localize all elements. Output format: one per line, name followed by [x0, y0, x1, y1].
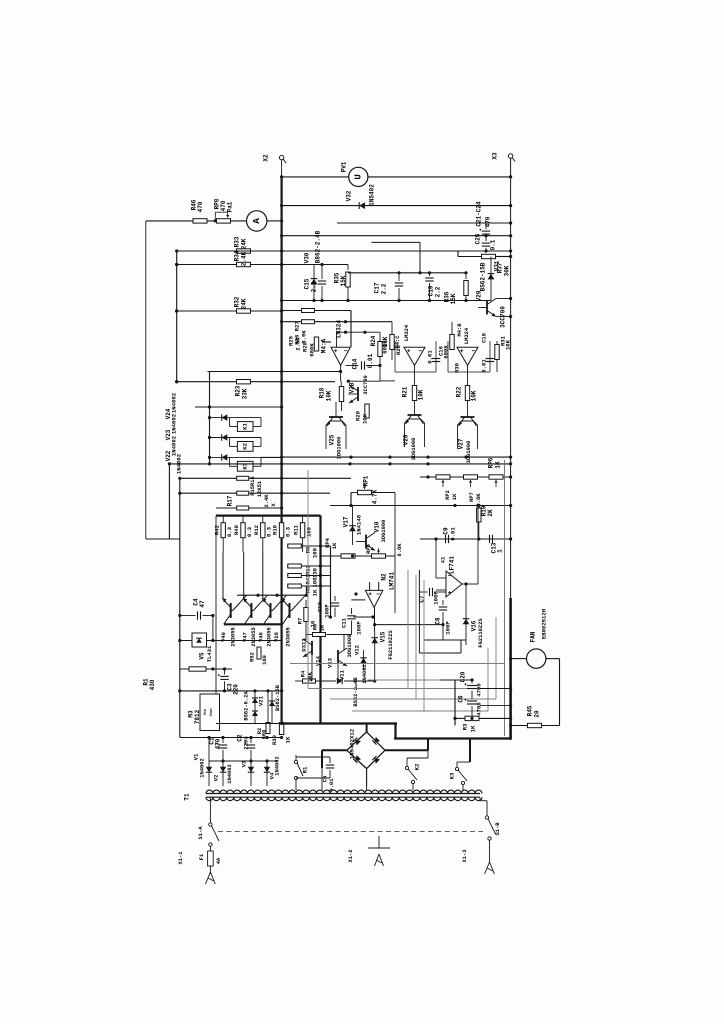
svg-text:R25: R25	[288, 335, 295, 346]
svg-text:2.4K: 2.4K	[264, 494, 270, 508]
junction	[280, 175, 512, 178]
resistor R1	[143, 667, 207, 691]
transistor V26	[403, 401, 425, 460]
wire	[394, 493, 396, 614]
junction	[509, 297, 512, 318]
svg-text:S1-B: S1-B	[495, 822, 501, 836]
potentiometer RP8	[214, 198, 234, 223]
junction	[280, 506, 283, 509]
wire	[215, 516, 217, 724]
wire	[455, 717, 465, 719]
svg-text:R42: R42	[213, 524, 220, 535]
capacitor C4	[178, 598, 214, 620]
svg-text:R17: R17	[227, 495, 234, 506]
wire	[350, 311, 352, 348]
diode V2	[213, 761, 234, 786]
junction	[349, 504, 512, 507]
relay contact K2	[405, 758, 420, 786]
junction	[339, 364, 382, 383]
svg-text:3DG1000: 3DG1000	[381, 520, 387, 543]
wire feedback	[352, 648, 488, 711]
wire base rail	[237, 594, 306, 596]
svg-text:4.7K: 4.7K	[372, 489, 379, 504]
wire	[371, 242, 420, 272]
svg-text:V25: V25	[329, 434, 336, 445]
svg-text:X1-1: X1-1	[178, 852, 184, 865]
svg-text:R30: R30	[454, 362, 461, 373]
wire	[180, 668, 232, 670]
wire	[511, 658, 527, 660]
wire	[330, 546, 332, 617]
wire	[282, 176, 349, 178]
resistor R19	[477, 505, 494, 539]
wire	[559, 659, 561, 726]
resistor R52	[250, 647, 269, 665]
svg-text:1N4002: 1N4002	[227, 764, 233, 783]
junction	[280, 299, 468, 302]
potentiometer RP7	[464, 475, 483, 507]
wire	[458, 256, 481, 258]
wire	[209, 760, 277, 762]
svg-text:0.3: 0.3	[226, 526, 233, 537]
svg-text:V11: V11	[339, 669, 346, 680]
resistor R23	[235, 380, 251, 400]
svg-text:15K: 15K	[340, 275, 347, 286]
resistor R27	[294, 320, 315, 345]
resistor R10	[272, 516, 292, 553]
svg-text:3CC700: 3CC700	[363, 375, 369, 394]
wire thick	[469, 739, 471, 763]
wire	[180, 477, 351, 479]
junction	[320, 263, 323, 266]
svg-text:470: 470	[215, 738, 222, 749]
potentiometer RP2	[436, 475, 458, 500]
svg-text:C19: C19	[428, 285, 435, 296]
svg-text:V1: V1	[193, 753, 200, 760]
diode V4	[264, 756, 281, 786]
svg-text:R34: R34	[234, 250, 241, 261]
resistor R15	[237, 476, 249, 480]
wire	[340, 365, 342, 381]
svg-text:K1: K1	[242, 423, 249, 430]
wire left drop	[145, 221, 147, 539]
svg-text:0.1: 0.1	[490, 239, 497, 250]
svg-text:S1-A: S1-A	[198, 826, 204, 840]
junction	[214, 219, 284, 222]
svg-text:R33: R33	[234, 236, 241, 247]
junction	[175, 249, 178, 383]
wire	[177, 310, 282, 312]
svg-text:2.2: 2.2	[435, 286, 442, 297]
svg-text:470: 470	[485, 216, 492, 227]
resistor R11	[293, 516, 313, 553]
svg-text:R12: R12	[253, 524, 260, 535]
resistor R37	[482, 254, 511, 276]
wire	[281, 160, 283, 177]
svg-text:33K: 33K	[242, 388, 249, 399]
svg-text:12K51: 12K51	[257, 481, 263, 497]
svg-text:2.2: 2.2	[311, 281, 318, 292]
svg-text:R6: R6	[313, 624, 319, 630]
svg-text:BS62-15B: BS62-15B	[275, 684, 281, 711]
resistor R40	[233, 516, 253, 553]
svg-text:V17: V17	[343, 516, 350, 527]
capacitor C7	[419, 588, 447, 605]
svg-text:600K: 600K	[382, 340, 389, 354]
resistor R2	[257, 691, 270, 739]
resistor R16	[237, 476, 263, 497]
wire	[282, 235, 511, 237]
svg-text:R1: R1	[302, 766, 309, 773]
capacitor C13	[490, 535, 504, 554]
wire	[320, 555, 395, 557]
capacitor C8	[435, 600, 452, 635]
svg-text:C9: C9	[443, 527, 450, 535]
meter PV1	[341, 161, 368, 186]
junction	[168, 462, 512, 465]
svg-text:1K: 1K	[332, 542, 338, 549]
svg-text:V13: V13	[327, 657, 334, 668]
svg-text:T1: T1	[184, 793, 191, 801]
junction	[351, 554, 354, 557]
svg-text:2N3055: 2N3055	[286, 627, 292, 646]
capacitor C15	[304, 265, 327, 301]
wire left rail2	[179, 478, 181, 539]
svg-text:RP1: RP1	[363, 475, 370, 486]
wire	[330, 505, 511, 507]
svg-text:10K: 10K	[326, 390, 333, 401]
svg-text:V26: V26	[403, 434, 410, 445]
svg-text:X3: X3	[492, 152, 499, 160]
wire	[209, 797, 211, 801]
junction	[319, 574, 322, 577]
svg-text:1K: 1K	[470, 725, 477, 732]
resistor R41	[287, 574, 331, 588]
transformer T1 core	[206, 794, 480, 798]
op-amp M4:B	[457, 323, 478, 366]
svg-text:3CC700: 3CC700	[500, 306, 507, 328]
svg-text:X1-2: X1-2	[348, 850, 354, 863]
wire	[436, 539, 446, 590]
wire frame	[504, 460, 506, 736]
svg-text:3.9K: 3.9K	[301, 330, 308, 344]
junction	[207, 370, 283, 739]
svg-text:100P: 100P	[445, 621, 452, 635]
svg-text:R21: R21	[402, 386, 409, 397]
junction	[208, 405, 283, 408]
svg-text:4700: 4700	[476, 702, 483, 716]
svg-text:R7: R7	[297, 618, 304, 625]
svg-text:2.4K: 2.4K	[241, 251, 248, 266]
svg-text:C20: C20	[460, 671, 467, 682]
svg-text:K2: K2	[242, 442, 249, 449]
svg-text:1K: 1K	[495, 461, 502, 469]
svg-text:4700: 4700	[476, 683, 483, 697]
junction	[221, 759, 268, 762]
svg-text:V3: V3	[241, 760, 248, 767]
resistor R39	[271, 723, 292, 746]
capacitor C17	[374, 273, 404, 301]
svg-text:LF741: LF741	[449, 556, 456, 574]
wire	[169, 463, 510, 465]
svg-text:N2: N2	[381, 573, 388, 581]
svg-text:C5: C5	[322, 775, 329, 782]
resistor R36	[444, 273, 469, 305]
wire thick	[322, 749, 347, 751]
junction	[178, 689, 283, 692]
svg-text:1N4002: 1N4002	[275, 756, 281, 775]
svg-text:2N3055: 2N3055	[231, 627, 237, 646]
relay coil K2	[237, 442, 253, 452]
svg-text:100: 100	[306, 526, 313, 537]
diode V3	[241, 760, 255, 786]
wire feedback	[308, 470, 505, 689]
resistor R12	[253, 516, 273, 553]
svg-text:FAN: FAN	[530, 631, 537, 642]
wire	[440, 679, 472, 681]
transformer T1 primary winding	[206, 797, 482, 800]
resistor R31	[495, 335, 512, 372]
svg-text:FG2110Z2S: FG2110Z2S	[478, 618, 484, 648]
svg-text:220: 220	[233, 684, 240, 695]
svg-text:R52: R52	[250, 652, 256, 662]
svg-text:1N4002: 1N4002	[171, 392, 178, 413]
svg-text:15K: 15K	[450, 293, 457, 304]
junction	[344, 331, 367, 334]
junction	[208, 416, 211, 419]
svg-text:V14: V14	[315, 655, 322, 666]
capacitor C2	[237, 734, 256, 761]
svg-text:24K: 24K	[241, 238, 248, 249]
svg-text:R15R16: R15R16	[250, 476, 256, 495]
wire	[462, 786, 464, 790]
junction	[211, 667, 226, 670]
resistor R29	[382, 322, 403, 360]
wire	[366, 786, 368, 790]
terminal X1-1	[178, 852, 215, 884]
svg-text:C15: C15	[304, 278, 311, 289]
svg-text:V15: V15	[380, 631, 387, 642]
wire thick	[321, 750, 323, 768]
wire	[212, 616, 214, 641]
wire	[348, 380, 395, 382]
junction	[509, 255, 512, 258]
svg-text:100P: 100P	[324, 604, 331, 618]
diode V22	[210, 454, 262, 466]
relay coil K3	[237, 461, 253, 471]
svg-text:C8: C8	[435, 617, 442, 625]
bridge rectifier	[347, 728, 385, 768]
wire feedback	[290, 570, 505, 711]
svg-text:10K: 10K	[471, 390, 478, 401]
op-amp N2	[351, 572, 395, 608]
resistor R6	[306, 624, 352, 650]
wire right rail thick	[509, 598, 512, 740]
wire	[282, 250, 511, 252]
junction	[280, 234, 512, 237]
transistor V25	[326, 402, 346, 459]
wire	[511, 725, 528, 727]
svg-text:V12: V12	[354, 644, 361, 655]
svg-text:1K: 1K	[312, 589, 319, 596]
transistor V40	[221, 552, 247, 647]
diode V24	[210, 414, 262, 426]
resistor R26	[302, 309, 315, 313]
transistor V47	[243, 552, 268, 647]
wire	[179, 539, 181, 738]
resistor R4	[300, 670, 316, 683]
wire	[146, 220, 247, 222]
dashed link	[218, 831, 483, 833]
wire	[337, 222, 511, 224]
node X3	[492, 152, 516, 162]
junction	[175, 263, 283, 266]
wire	[180, 492, 330, 494]
transistor V2B	[348, 375, 369, 403]
capacitor C19	[425, 273, 441, 301]
resistor RP4	[325, 537, 355, 558]
svg-text:47: 47	[199, 600, 206, 608]
switch S1-A	[198, 801, 219, 847]
wire	[177, 381, 335, 383]
svg-text:1N5402: 1N5402	[369, 184, 376, 206]
svg-text:3DG1000: 3DG1000	[466, 441, 472, 464]
node X2	[263, 154, 287, 163]
wire	[267, 220, 282, 222]
junction	[509, 687, 512, 707]
svg-text:1: 1	[497, 549, 504, 553]
junction	[256, 594, 308, 597]
svg-text:LM324: LM324	[464, 327, 470, 344]
junction	[476, 504, 479, 507]
svg-text:0.3: 0.3	[285, 526, 292, 537]
svg-text:R11: R11	[293, 524, 300, 535]
op-amp N1	[440, 556, 463, 597]
svg-text:100: 100	[262, 655, 268, 665]
wire relay rail	[209, 372, 211, 464]
wire	[282, 321, 392, 323]
wire	[496, 256, 511, 258]
svg-text:R3: R3	[462, 723, 469, 730]
wire thick	[385, 749, 428, 751]
wire thick	[366, 724, 368, 732]
wire	[305, 586, 307, 595]
junction	[397, 271, 467, 274]
svg-text:7812: 7812	[194, 709, 201, 724]
svg-text:470: 470	[197, 201, 204, 212]
svg-text:C21-C24: C21-C24	[476, 201, 483, 227]
wire	[282, 300, 491, 302]
svg-text:K2: K2	[414, 763, 421, 770]
svg-text:2.2: 2.2	[381, 283, 388, 294]
svg-text:RP6: RP6	[488, 457, 495, 468]
wire thick	[282, 722, 397, 724]
capacitor C5	[296, 757, 335, 791]
svg-text:Vin: Vin	[203, 709, 208, 715]
wire main bus	[281, 177, 283, 724]
junction	[509, 221, 512, 224]
svg-text:R18: R18	[319, 387, 326, 398]
regulator M3 7812	[188, 694, 220, 731]
svg-text:V32: V32	[346, 190, 353, 201]
wire	[350, 493, 352, 506]
wire right rail	[510, 158, 512, 598]
svg-text:4A: 4A	[216, 857, 222, 864]
svg-text:C18: C18	[481, 332, 488, 343]
relay contact K3	[449, 762, 471, 786]
svg-text:BS62-6.2A: BS62-6.2A	[244, 691, 250, 721]
svg-text:1N4002: 1N4002	[200, 758, 206, 777]
wire	[216, 723, 282, 725]
capacitor C14	[346, 353, 381, 369]
wire collector rail	[216, 514, 321, 516]
diode V32	[346, 184, 376, 209]
wire	[177, 250, 282, 252]
wire	[337, 332, 381, 347]
transistor V29	[476, 290, 511, 328]
resistor R46	[191, 199, 208, 223]
resistor R21	[402, 386, 425, 401]
wire	[542, 725, 560, 727]
svg-text:R40: R40	[233, 524, 240, 535]
wire	[261, 456, 282, 458]
zener V21	[244, 691, 265, 724]
junction	[280, 320, 347, 323]
svg-text:R24: R24	[370, 335, 377, 346]
svg-text:C6: C6	[458, 695, 465, 703]
resistor R24	[370, 332, 389, 381]
wire	[312, 655, 356, 689]
svg-text:R28: R28	[302, 341, 309, 352]
wire	[216, 507, 282, 509]
svg-text:X1-3: X1-3	[462, 850, 468, 863]
svg-text:C25: C25	[475, 233, 482, 244]
wire	[368, 176, 511, 178]
switch S1-B	[485, 801, 501, 841]
wire	[373, 608, 443, 632]
capacitor C25	[475, 233, 497, 251]
capacitor C16	[427, 345, 445, 363]
svg-text:430: 430	[149, 679, 156, 690]
junction	[477, 537, 512, 540]
transformer T1 secondary winding	[206, 790, 482, 793]
wire	[319, 516, 321, 724]
svg-text:1N4002: 1N4002	[171, 413, 178, 434]
svg-text:M4:B: M4:B	[457, 323, 463, 337]
shunt reg V5 TL431	[178, 633, 214, 662]
svg-text:LM324: LM324	[336, 320, 343, 338]
capacitor C18	[481, 332, 495, 372]
wire	[321, 786, 323, 790]
svg-text:R32: R32	[234, 296, 241, 307]
wire	[354, 616, 374, 618]
junction	[208, 456, 211, 459]
resistor R9	[287, 544, 331, 558]
svg-text:RP5: RP5	[366, 544, 372, 554]
wire thick	[394, 737, 511, 739]
potentiometer RP5	[366, 543, 403, 558]
wire left rail	[176, 251, 178, 382]
capacitor C21-C24	[476, 201, 492, 241]
relay contact K1	[294, 755, 308, 786]
resistor R22	[456, 386, 478, 402]
relay coil K1	[237, 422, 253, 432]
resistor R34	[234, 250, 251, 266]
resistor R13	[287, 564, 331, 578]
svg-text:1N4002: 1N4002	[171, 435, 178, 456]
wire collector rail2	[224, 623, 282, 625]
wire	[348, 272, 466, 274]
